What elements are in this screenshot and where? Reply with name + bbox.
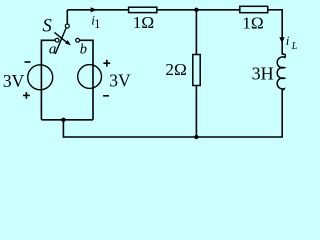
resistor 1 ohm right box — [240, 6, 268, 12]
junction dot bottom middle — [194, 135, 198, 139]
switch contact a — [55, 38, 59, 42]
switch blade — [55, 28, 66, 54]
polarity minus V2 bottom — [103, 95, 109, 97]
wire top rail left segment — [67, 9, 129, 11]
svg-text:3H: 3H — [252, 63, 274, 83]
switch throw arrowhead — [65, 40, 71, 45]
svg-text:1Ω: 1Ω — [133, 13, 154, 32]
wire contact b to right source — [80, 40, 94, 120]
resistor 1 ohm left box — [129, 7, 157, 12]
svg-text:S: S — [43, 17, 52, 37]
current arrow i1 — [91, 7, 97, 12]
wire switch riser — [66, 10, 68, 24]
svg-text:1: 1 — [94, 17, 100, 31]
polarity plus V2 top — [103, 60, 110, 67]
svg-text:2Ω: 2Ω — [165, 60, 186, 79]
svg-text:3V: 3V — [109, 71, 131, 91]
current arrow iL — [279, 37, 284, 43]
polarity plus V1 bottom — [23, 92, 30, 99]
svg-text:3V: 3V — [3, 71, 25, 91]
switch contact b — [76, 38, 80, 42]
voltage source V1 circle — [28, 65, 53, 90]
wire right branch upper — [281, 9, 283, 55]
wire bottom connector between sources — [41, 119, 93, 121]
wire top rail middle segment — [157, 9, 241, 11]
wire drop from sources to bottom rail — [62, 120, 64, 138]
wire bottom rail — [63, 136, 283, 138]
wire middle branch 2 ohm — [195, 10, 197, 137]
resistor 2 ohm box — [193, 55, 200, 86]
wire contact a to left source — [41, 40, 55, 120]
junction dot top middle — [194, 8, 198, 12]
svg-text:L: L — [291, 41, 298, 52]
svg-text:b: b — [80, 41, 87, 57]
wire top rail right segment — [268, 9, 284, 11]
switch throw arrow line — [54, 32, 67, 42]
switch top contact — [65, 24, 69, 28]
polarity minus V1 top — [25, 61, 31, 63]
inductor 3H coil — [277, 54, 285, 90]
svg-text:a: a — [49, 42, 57, 58]
svg-text:i: i — [286, 33, 290, 48]
junction dot sources common — [61, 118, 65, 122]
voltage source V2 circle — [78, 65, 102, 89]
svg-text:1Ω: 1Ω — [242, 13, 263, 32]
wire right branch lower — [281, 90, 283, 137]
